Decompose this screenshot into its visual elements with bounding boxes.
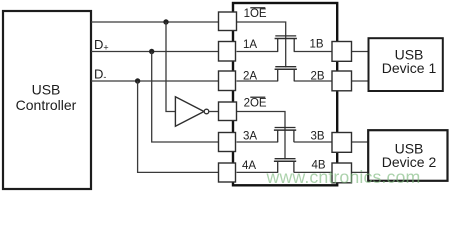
svg-text:3A: 3A <box>243 131 257 143</box>
pin 1A box <box>219 42 236 62</box>
wire branch D- down to pin 4A <box>138 81 219 172</box>
junction dot on D+ wire <box>149 49 154 54</box>
wire branch OE1 down to inverter input <box>166 22 176 112</box>
pin 4B box <box>332 163 352 183</box>
pin 2A box <box>219 71 236 91</box>
transistor Q2 <box>275 67 297 81</box>
wire 2OE pin to switch gates <box>237 112 286 160</box>
svg-text:Controller: Controller <box>16 97 77 113</box>
wire 1A pin to transistor Q1 <box>237 51 279 53</box>
wire pin 1B to USB Device 1 <box>352 51 370 53</box>
wire transistor Q4 to pin 4B <box>294 171 332 173</box>
svg-text:2B: 2B <box>311 71 325 83</box>
wire D+ from controller to pin 1A <box>91 51 219 53</box>
pin 3A box <box>219 133 236 152</box>
USB Device 2 label <box>382 140 437 170</box>
svg-text:1B: 1B <box>310 39 324 51</box>
junction dot on D- wire <box>135 78 140 83</box>
USB Device 2 box <box>368 130 447 181</box>
transistor Q4 <box>274 159 296 173</box>
wire branch D+ down to pin 3A <box>152 52 219 143</box>
svg-text:Device 1: Device 1 <box>382 60 437 76</box>
USB Controller box <box>3 11 91 189</box>
junction dot on OE1 wire <box>163 19 168 24</box>
pin 2OE box <box>219 102 237 121</box>
USB Device 1 label <box>382 47 437 76</box>
wire transistor Q1 to pin 1B <box>294 51 332 53</box>
USB Device 1 box <box>369 38 443 91</box>
pin 3B box <box>332 133 352 153</box>
svg-text:1OE: 1OE <box>244 8 267 20</box>
overline for 2OE <box>250 97 265 98</box>
wire 1OE pin to switch gates <box>237 22 286 67</box>
inverter U1 <box>175 97 208 126</box>
overline for 1OE <box>250 7 265 8</box>
wire 4A pin to transistor Q4 <box>237 171 279 173</box>
wire OE1 from controller to pin 1OE <box>91 21 219 23</box>
svg-text:USB: USB <box>32 81 61 97</box>
transistor Q1 <box>275 36 297 52</box>
wire pin 3B to USB Device 2 <box>352 141 370 143</box>
USB Controller label <box>16 81 77 113</box>
svg-text:2OE: 2OE <box>244 97 267 109</box>
wire 3A pin to transistor Q3 <box>237 141 279 143</box>
wire inverter output to pin 2OE <box>209 111 219 113</box>
transistor Q3 <box>274 128 296 143</box>
wire pin 4B to USB Device 2 <box>352 171 370 173</box>
wire transistor Q3 to pin 3B <box>294 141 332 143</box>
wire D- from controller to pin 2A <box>91 80 219 82</box>
pin 2B box <box>332 71 352 91</box>
pin 1OE box <box>219 12 237 31</box>
wire 2A pin to transistor Q2 <box>237 80 279 82</box>
pin 4A box <box>219 163 236 182</box>
pin 1B box <box>332 42 352 62</box>
switch IC outline <box>233 3 337 185</box>
wire transistor Q2 to pin 2B <box>294 80 332 82</box>
svg-text:www.cntronics.com: www.cntronics.com <box>266 167 421 187</box>
svg-text:1A: 1A <box>243 39 257 51</box>
wire pin 2B to USB Device 1 <box>352 80 370 82</box>
svg-text:3B: 3B <box>311 131 325 143</box>
svg-text:2A: 2A <box>243 71 257 83</box>
svg-text:4A: 4A <box>242 160 256 172</box>
